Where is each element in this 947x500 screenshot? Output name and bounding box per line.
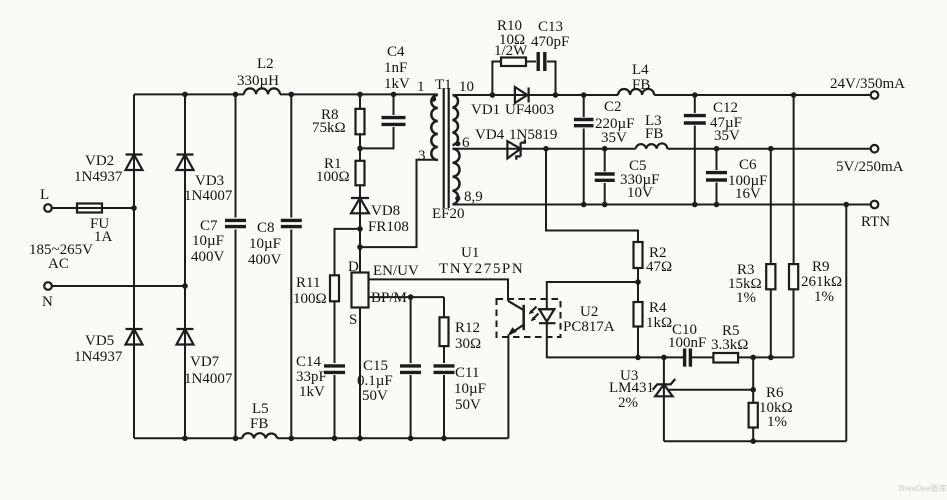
svg-text:35V: 35V: [714, 128, 740, 144]
svg-text:1/2W: 1/2W: [494, 43, 528, 59]
svg-text:VD7: VD7: [190, 354, 220, 370]
diode VD8 FR108: [351, 198, 409, 235]
svg-text:VD8: VD8: [371, 203, 400, 219]
capacitor C2 220uF 35V: [574, 99, 635, 146]
svg-text:1N4937: 1N4937: [74, 349, 123, 365]
capacitor C11 10uF 50V: [434, 363, 487, 413]
svg-text:EF20: EF20: [432, 206, 465, 222]
svg-text:VD5: VD5: [85, 333, 114, 349]
svg-text:1%: 1%: [767, 414, 787, 430]
svg-text:L4: L4: [632, 62, 649, 78]
svg-text:PC817A: PC817A: [563, 319, 615, 335]
svg-text:50V: 50V: [362, 388, 388, 404]
inductor L3 FB: [636, 113, 668, 149]
svg-text:C8: C8: [257, 220, 275, 236]
svg-text:LM431: LM431: [609, 380, 654, 396]
node bottom rail C15: [408, 436, 414, 442]
diode VD7 1N4007: [177, 329, 233, 387]
svg-text:100nF: 100nF: [668, 335, 706, 351]
wire transformer pin 3 to drain: [360, 160, 438, 247]
fuse FU1 1A: [77, 204, 113, 246]
node RTN rail C2: [581, 202, 587, 208]
svg-text:75kΩ: 75kΩ: [312, 120, 346, 136]
capacitor C8 10uF 400V: [248, 218, 302, 269]
svg-text:BreaDee罯库: BreaDee罯库: [899, 483, 947, 493]
node top rail R8: [357, 92, 363, 98]
svg-text:1A: 1A: [94, 229, 113, 245]
diode VD4 1N5819 schottky: [475, 127, 557, 160]
node bottom rail VD7: [182, 436, 188, 442]
resistor R1 100ohm: [316, 156, 365, 185]
svg-text:C4: C4: [387, 44, 405, 60]
svg-text:3: 3: [418, 148, 426, 164]
resistor R4 1k: [634, 300, 673, 331]
diode VD5 1N4937: [74, 329, 143, 365]
wire feedback line to C10: [638, 356, 685, 358]
terminal N: [42, 282, 53, 310]
wire bottom rail (primary ground): [134, 437, 508, 439]
svg-text:C13: C13: [538, 19, 563, 35]
wire RTN vertical: [845, 205, 847, 442]
svg-text:R9: R9: [812, 259, 830, 275]
capacitor C14 33pF 1kV: [296, 354, 345, 400]
capacitor C6 100uF 16V: [706, 157, 768, 202]
wire L input: [52, 207, 134, 209]
resistor R11 100ohm: [293, 275, 339, 307]
wire opto emitter to ground: [507, 335, 509, 439]
svg-text:C11: C11: [455, 365, 479, 381]
wire R5 to divider node: [738, 356, 793, 358]
wire R4 to feedback node: [637, 327, 639, 358]
svg-text:C6: C6: [739, 157, 757, 173]
svg-text:35V: 35V: [601, 130, 627, 146]
svg-text:VD3: VD3: [195, 173, 224, 189]
svg-text:U1: U1: [461, 245, 479, 261]
resistor R8 75k: [312, 107, 365, 136]
resistor R3 15k 1%: [728, 149, 775, 358]
wire C12 branch: [694, 95, 696, 205]
wire top rail left (rectified bus): [134, 93, 438, 95]
diode VD2 1N4937: [74, 153, 143, 185]
node 24V rail R9: [791, 92, 797, 98]
svg-text:10V: 10V: [627, 185, 653, 201]
svg-text:100Ω: 100Ω: [293, 291, 327, 307]
svg-text:1N4937: 1N4937: [74, 169, 123, 185]
node primary polarity dot: [431, 96, 436, 101]
svg-text:1N4007: 1N4007: [184, 371, 233, 387]
node snubber left: [490, 92, 496, 98]
svg-text:R11: R11: [296, 275, 320, 291]
inductor L5 FB: [242, 401, 277, 438]
node R2-R4-LED junction: [635, 279, 641, 285]
svg-text:1N4007: 1N4007: [184, 188, 233, 204]
svg-text:400V: 400V: [191, 249, 225, 265]
svg-text:N: N: [42, 294, 53, 310]
svg-text:C15: C15: [363, 358, 388, 374]
svg-text:R4: R4: [649, 300, 667, 316]
node bottom rail C14: [332, 436, 338, 442]
node snubber right: [553, 92, 559, 98]
node feedback U3: [661, 355, 667, 361]
wire R11 branch: [335, 229, 361, 438]
node 24V rail C2: [581, 92, 587, 98]
wire LED anode: [547, 282, 638, 309]
svg-text:1kV: 1kV: [299, 384, 325, 400]
node RTN rail C12: [692, 202, 698, 208]
node secondary polarity dot pin6: [455, 141, 460, 146]
svg-text:16V: 16V: [735, 186, 761, 202]
svg-text:261kΩ: 261kΩ: [801, 274, 842, 290]
svg-text:C12: C12: [713, 100, 738, 116]
svg-text:FB: FB: [250, 416, 268, 432]
terminal L: [40, 187, 52, 212]
wire R8-R1-VD8 drain chain: [359, 94, 361, 272]
transformer core: [432, 88, 465, 222]
svg-text:U2: U2: [580, 304, 598, 320]
label AC input: [29, 242, 93, 272]
svg-text:50V: 50V: [455, 397, 481, 413]
svg-text:10µF: 10µF: [249, 236, 281, 252]
wire C15 branch: [410, 297, 412, 438]
svg-text:FR108: FR108: [368, 219, 409, 235]
node top rail VD3: [182, 92, 188, 98]
wire left branch vertical: [133, 94, 135, 438]
svg-text:2%: 2%: [618, 395, 638, 411]
node 5V rail C6: [714, 146, 720, 152]
svg-text:TNY275PN: TNY275PN: [439, 261, 524, 277]
svg-text:1nF: 1nF: [384, 60, 407, 76]
wire RTN rail: [453, 204, 871, 206]
node top rail C8: [289, 92, 295, 98]
svg-text:C7: C7: [200, 218, 218, 234]
svg-text:100Ω: 100Ω: [316, 169, 350, 185]
resistor R12 30ohm: [440, 317, 482, 352]
wire S pin to ground: [359, 308, 361, 439]
svg-text:330µH: 330µH: [237, 73, 279, 89]
node BP/M C15 tap: [408, 294, 414, 300]
svg-text:FB: FB: [645, 126, 663, 142]
capacitor C13 470pF: [531, 19, 569, 71]
svg-text:1%: 1%: [814, 289, 834, 305]
node RTN rail C6: [714, 202, 720, 208]
node VD8-R11 junction: [357, 226, 363, 232]
node RTN rail C5: [602, 202, 608, 208]
node top rail C4: [391, 92, 397, 98]
node 5V rail R3: [768, 146, 774, 152]
node bottom rail S: [357, 436, 363, 442]
wire EN/UV to optocoupler: [369, 279, 509, 300]
capacitor C7 10uF 400V: [191, 218, 246, 266]
node R8-R1-C4 junction: [357, 146, 363, 152]
transistor U2 phototransistor: [508, 301, 524, 336]
wire second branch vertical: [184, 94, 186, 438]
transformer secondary winding 24V: [453, 79, 475, 145]
svg-text:470pF: 470pF: [531, 34, 569, 50]
svg-text:0.1µF: 0.1µF: [357, 373, 393, 389]
capacitor C5 330uF 10V: [595, 158, 660, 201]
wire 24V rail: [453, 94, 871, 96]
wire U3 ref line: [668, 389, 753, 391]
node L-fuse junction: [131, 205, 137, 211]
node secondary polarity dot pin89: [455, 196, 460, 201]
svg-text:8,9: 8,9: [464, 189, 483, 205]
svg-text:L: L: [40, 187, 49, 203]
wire R12-C11 branch: [443, 297, 445, 438]
wire C5 branch: [604, 149, 606, 205]
svg-text:30Ω: 30Ω: [455, 336, 481, 352]
svg-text:VD4: VD4: [475, 127, 505, 143]
node ref junction: [750, 387, 756, 393]
optocoupler U2 PC817A dashed box: [497, 299, 615, 337]
svg-text:24V/350mA: 24V/350mA: [830, 76, 905, 92]
wire C8 branch vertical: [290, 94, 292, 438]
svg-text:400V: 400V: [248, 252, 282, 268]
svg-text:AC: AC: [48, 256, 69, 272]
inductor L2 330uH: [237, 56, 280, 94]
wire LED cathode to feedback line: [547, 323, 638, 357]
capacitor C10 100nF: [668, 322, 706, 367]
svg-text:L5: L5: [252, 401, 269, 417]
resistor R2 47ohm: [634, 242, 673, 275]
op-amp U1 TNY275PN body: [352, 245, 525, 308]
diode VD1 UF4003: [471, 87, 554, 118]
wire R2 feed from 5V rail: [546, 149, 638, 242]
wire C10 to R5: [690, 356, 713, 358]
svg-text:10µF: 10µF: [192, 233, 224, 249]
svg-text:RTN: RTN: [861, 214, 890, 230]
transistor U3 LM431 shunt regulator: [609, 357, 675, 441]
svg-text:47Ω: 47Ω: [646, 259, 672, 275]
node 24V rail C12: [692, 92, 698, 98]
wire R2 to R4: [637, 268, 639, 302]
svg-text:33pF: 33pF: [296, 369, 327, 385]
svg-text:10µF: 10µF: [454, 381, 486, 397]
capacitor C4 1nF 1kV: [362, 44, 410, 148]
svg-text:VD1: VD1: [471, 102, 500, 118]
inductor L4 FB: [618, 62, 654, 95]
transformer secondary winding 5V: [453, 135, 483, 205]
resistor R5 3.3k: [711, 323, 748, 363]
svg-text:3.3kΩ: 3.3kΩ: [711, 337, 748, 353]
node 5V rail C5: [602, 146, 608, 152]
svg-text:C2: C2: [604, 99, 622, 115]
wire 5V rail: [453, 148, 871, 150]
terminal RTN: [861, 201, 890, 230]
wire C2 branch: [583, 95, 585, 205]
wire BP/M line: [369, 296, 445, 298]
node bottom rail C11: [441, 436, 447, 442]
node 5V rail R2 tap: [543, 146, 549, 152]
terminal 5V output: [836, 145, 904, 175]
wire divider to ref node: [752, 357, 754, 402]
svg-text:R6: R6: [766, 385, 784, 401]
svg-text:VD2: VD2: [85, 153, 114, 169]
terminal 24V output: [830, 76, 905, 99]
node N junction: [182, 283, 188, 289]
svg-text:FB: FB: [632, 77, 650, 93]
wire LED light arrows: [529, 307, 539, 322]
svg-text:1: 1: [417, 79, 425, 95]
wire C6 branch: [716, 149, 718, 205]
svg-text:C14: C14: [296, 354, 322, 370]
node R6 bottom: [750, 438, 756, 444]
svg-text:10: 10: [459, 79, 474, 95]
LED U2 emitter diode: [538, 309, 556, 323]
wire snubber loop: [492, 62, 555, 96]
svg-text:S: S: [349, 312, 357, 328]
svg-text:1%: 1%: [736, 290, 756, 306]
svg-text:1kΩ: 1kΩ: [646, 315, 672, 331]
node VD8-pin3 junction: [357, 244, 363, 250]
capacitor C15 0.1uF 50V: [357, 358, 421, 404]
diode VD3 1N4007: [177, 155, 233, 205]
wire secondary ground rail: [664, 440, 846, 442]
wire N input: [52, 285, 185, 287]
resistor R10 10ohm 1/2W: [494, 18, 528, 66]
svg-text:1kV: 1kV: [384, 76, 410, 92]
node bottom rail C8: [289, 436, 295, 442]
svg-text:5V/250mA: 5V/250mA: [836, 159, 904, 175]
node bottom rail C7: [233, 436, 239, 442]
svg-text:R12: R12: [455, 320, 480, 336]
capacitor C12 47uF 35V: [684, 100, 742, 144]
resistor R9 261k 1%: [789, 95, 842, 357]
resistor R6 10k 1%: [749, 385, 793, 441]
svg-text:1N5819: 1N5819: [509, 127, 557, 143]
node divider R5: [750, 355, 756, 361]
node feedback R4: [635, 355, 641, 361]
svg-text:UF4003: UF4003: [505, 102, 554, 118]
node divider R3: [768, 355, 774, 361]
transformer T1 EF20 primary winding: [417, 77, 452, 164]
node RTN rail corner: [844, 202, 850, 208]
svg-text:L2: L2: [257, 56, 274, 72]
node top rail C7: [233, 92, 239, 98]
svg-text:EN/UV: EN/UV: [373, 263, 419, 279]
svg-text:D: D: [348, 259, 359, 275]
wire C7 branch vertical: [235, 94, 237, 438]
